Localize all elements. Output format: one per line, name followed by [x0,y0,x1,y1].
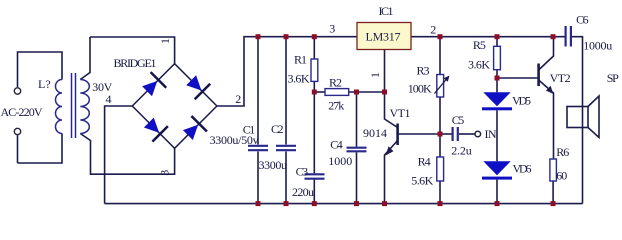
svg-text:R3: R3 [417,63,430,77]
svg-text:1: 1 [368,72,382,78]
svg-text:L?: L? [38,77,51,91]
svg-text:VD5: VD5 [512,93,531,107]
svg-text:3300u/50v: 3300u/50v [210,133,259,147]
svg-text:1000u: 1000u [583,39,612,53]
svg-text:3.6K: 3.6K [288,71,310,85]
svg-text:R4: R4 [418,155,431,169]
svg-text:R2: R2 [329,76,342,90]
svg-text:R6: R6 [556,145,569,159]
svg-text:3300u: 3300u [259,158,288,172]
svg-text:IN: IN [485,127,497,141]
svg-text:3: 3 [329,22,335,36]
svg-text:VD6: VD6 [513,161,532,175]
svg-text:60: 60 [556,169,567,183]
svg-text:220u: 220u [292,185,314,199]
svg-text:1: 1 [158,38,172,44]
svg-text:C3: C3 [296,164,309,178]
svg-text:100K: 100K [408,82,432,96]
svg-text:AC-220V: AC-220V [1,105,43,119]
svg-text:BRIDGE1: BRIDGE1 [114,56,157,70]
svg-text:C5: C5 [452,113,465,127]
svg-text:C6: C6 [576,12,589,26]
svg-text:3.6K: 3.6K [468,58,490,72]
svg-text:3: 3 [158,170,172,176]
svg-text:4: 4 [106,92,112,106]
svg-text:LM317: LM317 [366,29,401,43]
svg-text:C2: C2 [271,122,284,136]
svg-text:1000: 1000 [328,154,352,168]
svg-text:C4: C4 [330,137,343,151]
svg-text:SP: SP [607,71,619,85]
svg-text:5.6K: 5.6K [411,173,433,187]
svg-text:R1: R1 [294,53,307,67]
svg-text:VT2: VT2 [550,71,571,85]
svg-text:9014: 9014 [363,126,387,140]
svg-text:2.2u: 2.2u [451,143,472,157]
svg-text:27k: 27k [328,99,344,113]
svg-text:2: 2 [235,92,241,106]
svg-text:VT1: VT1 [390,106,411,120]
svg-text:2: 2 [430,22,436,36]
svg-text:R5: R5 [473,38,486,52]
svg-text:IC1: IC1 [379,4,394,18]
